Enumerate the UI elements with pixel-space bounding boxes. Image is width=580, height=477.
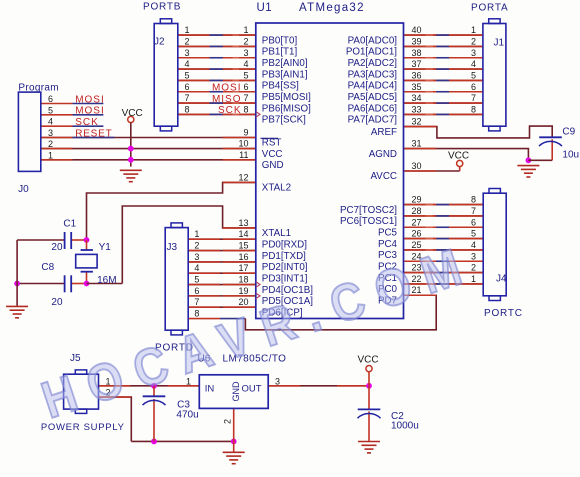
svg-text:5: 5	[471, 229, 476, 239]
svg-text:1: 1	[194, 229, 199, 239]
svg-text:3: 3	[48, 128, 53, 138]
svg-text:MOSI: MOSI	[75, 94, 105, 105]
svg-text:PB1[T1]: PB1[T1]	[262, 47, 298, 58]
svg-text:10: 10	[238, 139, 248, 149]
svg-text:8: 8	[194, 309, 199, 319]
svg-text:20: 20	[51, 297, 63, 308]
svg-text:1000u: 1000u	[391, 421, 419, 432]
svg-text:AREF: AREF	[371, 127, 397, 138]
svg-text:J1: J1	[494, 38, 505, 49]
svg-text:6: 6	[243, 82, 248, 92]
svg-text:470u: 470u	[176, 410, 198, 421]
svg-text:3: 3	[185, 48, 190, 58]
svg-text:XTAL1: XTAL1	[262, 228, 291, 239]
svg-text:9: 9	[243, 128, 248, 138]
svg-text:7: 7	[194, 297, 199, 307]
svg-text:PA7[ADC7]: PA7[ADC7]	[348, 115, 398, 126]
svg-text:J3: J3	[167, 242, 178, 253]
svg-text:28: 28	[412, 206, 422, 216]
svg-text:6: 6	[471, 82, 476, 92]
svg-text:5: 5	[48, 105, 53, 115]
svg-text:SCK: SCK	[218, 105, 242, 116]
svg-text:5: 5	[471, 70, 476, 80]
svg-text:PC4: PC4	[378, 239, 398, 250]
svg-text:3: 3	[471, 48, 476, 58]
svg-text:VCC: VCC	[358, 355, 379, 366]
svg-text:AVCC: AVCC	[371, 171, 398, 182]
svg-text:PB6[MISO]: PB6[MISO]	[262, 103, 311, 114]
svg-text:4: 4	[194, 263, 199, 273]
svg-text:3: 3	[275, 376, 280, 386]
svg-text:19: 19	[238, 286, 248, 296]
svg-text:5: 5	[185, 70, 190, 80]
svg-text:MOSI: MOSI	[212, 83, 242, 94]
svg-text:16M: 16M	[97, 275, 116, 286]
svg-text:26: 26	[412, 229, 422, 239]
svg-text:3: 3	[194, 252, 199, 262]
svg-text:39: 39	[412, 36, 422, 46]
svg-text:2: 2	[223, 419, 233, 424]
svg-text:7: 7	[471, 93, 476, 103]
svg-text:8: 8	[471, 195, 476, 205]
svg-text:VCC: VCC	[448, 151, 469, 162]
svg-text:2: 2	[185, 36, 190, 46]
svg-text:4: 4	[185, 59, 190, 69]
svg-text:30: 30	[412, 161, 422, 171]
svg-text:MOSI: MOSI	[75, 106, 105, 117]
svg-text:1: 1	[48, 150, 53, 160]
svg-text:PD1[TXD]: PD1[TXD]	[262, 251, 306, 262]
svg-text:37: 37	[412, 59, 422, 69]
svg-text:29: 29	[412, 195, 422, 205]
svg-text:PB3[AIN1]: PB3[AIN1]	[262, 69, 308, 80]
svg-text:C8: C8	[41, 262, 54, 273]
svg-text:PA0[ADC0]: PA0[ADC0]	[348, 35, 398, 46]
svg-text:38: 38	[412, 48, 422, 58]
svg-text:35: 35	[412, 82, 422, 92]
svg-text:PB2[AIN0]: PB2[AIN0]	[262, 58, 308, 69]
svg-text:Y1: Y1	[99, 242, 112, 253]
svg-text:31: 31	[412, 139, 422, 149]
svg-text:7: 7	[185, 93, 190, 103]
svg-text:PB5[MOSI]: PB5[MOSI]	[262, 92, 311, 103]
svg-text:VCC: VCC	[262, 149, 283, 160]
svg-text:3: 3	[471, 251, 476, 261]
svg-text:5: 5	[194, 275, 199, 285]
svg-text:AGND: AGND	[369, 149, 397, 160]
svg-text:Program: Program	[18, 83, 58, 94]
svg-text:32: 32	[412, 117, 422, 127]
svg-text:PB7[SCK]: PB7[SCK]	[262, 115, 306, 126]
svg-text:J2: J2	[154, 37, 165, 48]
svg-text:PB0[T0]: PB0[T0]	[262, 35, 298, 46]
svg-text:PORTC: PORTC	[484, 308, 523, 319]
svg-text:C1: C1	[63, 219, 76, 230]
svg-text:2: 2	[194, 241, 199, 251]
svg-text:20: 20	[51, 242, 63, 253]
svg-text:ATMega32: ATMega32	[299, 2, 365, 14]
svg-text:4: 4	[243, 59, 248, 69]
svg-text:40: 40	[412, 25, 422, 35]
svg-text:PA5[ADC5]: PA5[ADC5]	[348, 92, 398, 103]
svg-text:8: 8	[243, 104, 248, 114]
svg-text:VCC: VCC	[122, 108, 143, 119]
svg-text:34: 34	[412, 93, 422, 103]
svg-text:6: 6	[48, 94, 53, 104]
svg-text:PC5: PC5	[378, 227, 398, 238]
svg-text:2: 2	[243, 36, 248, 46]
svg-text:27: 27	[412, 217, 422, 227]
svg-text:14: 14	[238, 229, 248, 239]
svg-text:GND: GND	[262, 160, 284, 171]
svg-text:PA6[ADC6]: PA6[ADC6]	[348, 103, 398, 114]
svg-text:6: 6	[194, 286, 199, 296]
svg-text:J0: J0	[18, 184, 29, 195]
svg-text:33: 33	[412, 104, 422, 114]
svg-text:15: 15	[238, 241, 248, 251]
svg-text:OUT: OUT	[241, 383, 261, 394]
svg-text:U1: U1	[257, 2, 273, 14]
svg-text:6: 6	[185, 82, 190, 92]
svg-text:PO1[ADC1]: PO1[ADC1]	[346, 47, 397, 58]
svg-text:RESET: RESET	[75, 128, 112, 139]
svg-text:3: 3	[243, 48, 248, 58]
svg-text:5: 5	[243, 70, 248, 80]
svg-text:HOCAVR.COM: HOCAVR.COM	[35, 235, 481, 430]
svg-text:1: 1	[471, 25, 476, 35]
svg-text:13: 13	[238, 218, 248, 228]
svg-text:4: 4	[48, 117, 53, 127]
svg-text:PD0[RXD]: PD0[RXD]	[262, 239, 307, 250]
svg-text:16: 16	[238, 252, 248, 262]
svg-text:PA4[ADC4]: PA4[ADC4]	[348, 81, 398, 92]
svg-text:11: 11	[239, 150, 248, 160]
svg-text:2: 2	[471, 36, 476, 46]
svg-text:8: 8	[471, 104, 476, 114]
svg-text:PORTB: PORTB	[143, 2, 181, 13]
svg-text:RST: RST	[262, 138, 282, 149]
svg-text:SCK: SCK	[75, 117, 99, 128]
svg-text:PC6[TOSC1]: PC6[TOSC1]	[340, 216, 397, 227]
svg-text:PA3[ADC3]: PA3[ADC3]	[348, 69, 398, 80]
svg-text:17: 17	[238, 263, 248, 273]
svg-text:4: 4	[471, 59, 476, 69]
svg-text:GND: GND	[231, 381, 241, 402]
svg-text:6: 6	[471, 217, 476, 227]
svg-text:IN: IN	[205, 383, 215, 394]
svg-text:8: 8	[185, 104, 190, 114]
svg-text:PC7[TOSC2]: PC7[TOSC2]	[340, 205, 397, 216]
svg-text:18: 18	[238, 275, 248, 285]
svg-text:PA2[ADC2]: PA2[ADC2]	[348, 58, 398, 69]
svg-text:XTAL2: XTAL2	[262, 183, 291, 194]
svg-text:36: 36	[412, 70, 422, 80]
svg-text:1: 1	[185, 25, 190, 35]
svg-text:MISO: MISO	[212, 94, 242, 105]
svg-text:12: 12	[238, 172, 248, 182]
svg-text:PD3[INT1]: PD3[INT1]	[262, 273, 308, 284]
svg-text:C9: C9	[562, 127, 575, 138]
svg-text:7: 7	[243, 93, 248, 103]
svg-text:PD2[INT0]: PD2[INT0]	[262, 262, 308, 273]
svg-text:2: 2	[48, 139, 53, 149]
svg-text:10u: 10u	[562, 150, 579, 161]
svg-text:4: 4	[471, 240, 476, 250]
svg-text:PORTA: PORTA	[471, 3, 509, 14]
svg-text:J4: J4	[496, 274, 507, 285]
svg-text:7: 7	[471, 206, 476, 216]
svg-text:1: 1	[243, 25, 248, 35]
svg-text:PB4[SS]: PB4[SS]	[262, 81, 299, 92]
